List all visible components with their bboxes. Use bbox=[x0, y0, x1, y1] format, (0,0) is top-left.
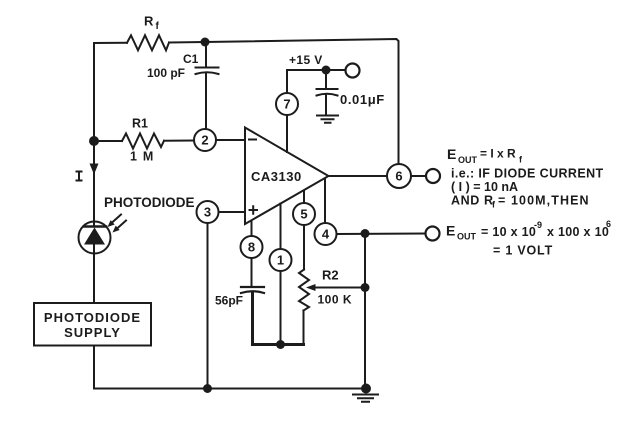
label I bbox=[76, 172, 83, 181]
op-amp plus sign bbox=[250, 206, 258, 214]
wire: top feedback rail from left wire to Rf bbox=[94, 42, 127, 44]
svg-text:CA3130: CA3130 bbox=[251, 169, 302, 184]
svg-text:= 1 VOLT: = 1 VOLT bbox=[493, 244, 553, 258]
photodiode D1 bbox=[79, 222, 111, 254]
wire: pin 7 down to op-amp top edge bbox=[286, 115, 288, 152]
R2 wiper arrowhead bbox=[306, 284, 316, 291]
pin 7 circle bbox=[276, 93, 298, 115]
svg-text:4: 4 bbox=[322, 227, 330, 242]
svg-text:2: 2 bbox=[201, 133, 208, 148]
svg-text:56pF: 56pF bbox=[215, 294, 243, 308]
svg-text:7: 7 bbox=[283, 97, 290, 112]
terminal: +15V bbox=[346, 64, 360, 78]
light arrow 2 into photodiode bbox=[116, 221, 126, 230]
svg-text:( I ) = 10 nA: ( I ) = 10 nA bbox=[451, 180, 518, 194]
svg-text:100 K: 100 K bbox=[318, 293, 353, 307]
node: R1 junction on left rail bbox=[89, 136, 99, 146]
op-amp minus sign bbox=[249, 139, 256, 141]
wire: pin 2 to op-amp inverting input bbox=[216, 139, 245, 141]
svg-text:= I x R: = I x R bbox=[480, 147, 516, 161]
svg-text:100 pF: 100 pF bbox=[147, 66, 185, 80]
svg-text:OUT: OUT bbox=[457, 232, 477, 242]
capacitor C1 bbox=[196, 68, 219, 75]
pin 6 circle bbox=[387, 164, 411, 188]
svg-text:1: 1 bbox=[277, 253, 284, 268]
wire: bypass cap to ground bbox=[325, 95, 327, 115]
svg-text:1 M: 1 M bbox=[130, 150, 154, 164]
wire: op-amp to pin 5 bbox=[303, 191, 305, 204]
terminal: EOUT lower bbox=[426, 227, 440, 241]
wire: pin 4 branch from output edge bbox=[324, 179, 326, 224]
wire: pin 3 to op-amp non-inverting input bbox=[219, 211, 246, 213]
wire: op-amp output to pin 6 bbox=[329, 175, 388, 177]
photodiode cathode bar bbox=[84, 225, 106, 228]
pin 1 circle bbox=[270, 249, 292, 271]
svg-text:f: f bbox=[156, 21, 160, 32]
ground symbol bottom bbox=[353, 395, 378, 402]
photodiode triangle bbox=[84, 228, 105, 245]
wire: pin 5 down to R2 bbox=[303, 225, 305, 270]
wire: R1 to pin 2 bbox=[164, 140, 194, 142]
wire: junction down to bypass cap bbox=[325, 70, 327, 89]
svg-text:E: E bbox=[446, 223, 455, 239]
wire: left vertical rail bbox=[93, 43, 95, 222]
wire: C1 branch upper bbox=[205, 42, 207, 67]
svg-text:i.e.: IF DIODE CURRENT: i.e.: IF DIODE CURRENT bbox=[451, 167, 604, 181]
pin 3 circle bbox=[197, 201, 219, 223]
node: pin4 rail junction bbox=[361, 229, 370, 238]
node: +15V / 0.01uF junction bbox=[322, 66, 331, 75]
wire: Rf to right side, corner down to pin 6 bbox=[169, 39, 399, 164]
photodiode supply box bbox=[34, 303, 151, 346]
svg-text:0.01μF: 0.01μF bbox=[340, 92, 385, 107]
svg-text:x 100 x 10: x 100 x 10 bbox=[547, 225, 609, 239]
svg-text:PHOTODIODE: PHOTODIODE bbox=[44, 310, 141, 325]
wire: pin 4 to lower output terminal bbox=[337, 233, 426, 236]
pin 8 circle bbox=[241, 236, 263, 258]
svg-text:+15 V: +15 V bbox=[289, 53, 323, 67]
svg-text:R: R bbox=[144, 14, 154, 29]
wire: C1 branch lower to pin 2 bbox=[205, 74, 207, 130]
wire: pin 6 to output terminal bbox=[411, 175, 426, 177]
svg-text:AND R: AND R bbox=[451, 194, 494, 208]
op-amp U1 CA3130 triangle bbox=[245, 128, 329, 225]
resistor Rf bbox=[127, 35, 169, 50]
svg-text:6: 6 bbox=[395, 169, 402, 184]
light arrow 1 into photodiode bbox=[111, 215, 121, 224]
node: Rf/C1/feedback junction bbox=[201, 38, 210, 47]
svg-text:= 10 x 10: = 10 x 10 bbox=[481, 225, 536, 239]
wire: op-amp to pin 1 bbox=[280, 204, 282, 250]
wire: pin 7 up to +15V rail bbox=[287, 70, 346, 93]
wire: R2 wiper to right rail bbox=[312, 287, 365, 289]
wire: supply box to bottom rail bbox=[94, 346, 366, 389]
node: ground junction bottom right bbox=[361, 384, 371, 394]
wire: 56pF to common wire (thick U) bbox=[253, 293, 304, 345]
svg-text:-9: -9 bbox=[534, 220, 542, 230]
svg-text:8: 8 bbox=[248, 240, 255, 255]
svg-text:f: f bbox=[492, 200, 496, 210]
pin 2 circle bbox=[194, 129, 216, 151]
svg-text:E: E bbox=[447, 146, 456, 162]
svg-text:6: 6 bbox=[606, 219, 611, 229]
capacitor 56pF bbox=[241, 287, 264, 293]
svg-text:f: f bbox=[519, 155, 523, 165]
svg-text:R1: R1 bbox=[132, 117, 148, 131]
svg-text:OUT: OUT bbox=[458, 155, 478, 165]
wire: pin 8 down to 56pF bbox=[251, 258, 253, 287]
svg-text:C1: C1 bbox=[183, 52, 199, 66]
terminal: EOUT upper bbox=[426, 169, 440, 183]
node: pin1 / common wire junction bbox=[276, 340, 285, 349]
ground symbol under 0.01uF bbox=[317, 116, 338, 123]
node: R2 wiper junction bbox=[361, 283, 370, 292]
wire: right vertical rail to ground bbox=[364, 234, 366, 389]
potentiometer R2 bbox=[299, 270, 309, 311]
svg-text:R2: R2 bbox=[322, 268, 339, 283]
resistor R1 bbox=[122, 134, 164, 149]
node: pin3 line joins bottom rail bbox=[203, 384, 212, 393]
wire: op-amp to pin 8 bbox=[251, 221, 253, 237]
svg-text:3: 3 bbox=[204, 205, 211, 220]
wire: R2 bottom lead bbox=[303, 311, 305, 345]
svg-text:SUPPLY: SUPPLY bbox=[64, 325, 121, 340]
pin 4 circle bbox=[315, 223, 337, 245]
wire: R1 left lead bbox=[94, 140, 122, 142]
current arrow I on left rail bbox=[90, 164, 99, 175]
capacitor 0.01uF bbox=[317, 89, 338, 96]
svg-text:PHOTODIODE: PHOTODIODE bbox=[104, 195, 195, 210]
wire: left rail through photodiode bbox=[93, 222, 95, 227]
wire: pin 1 down to common wire bbox=[280, 271, 282, 345]
pin 5 circle bbox=[293, 203, 315, 225]
wire: pin 3 down to bottom rail bbox=[207, 223, 209, 389]
svg-text:5: 5 bbox=[300, 207, 307, 222]
svg-text:= 100M,THEN: = 100M,THEN bbox=[498, 194, 590, 208]
